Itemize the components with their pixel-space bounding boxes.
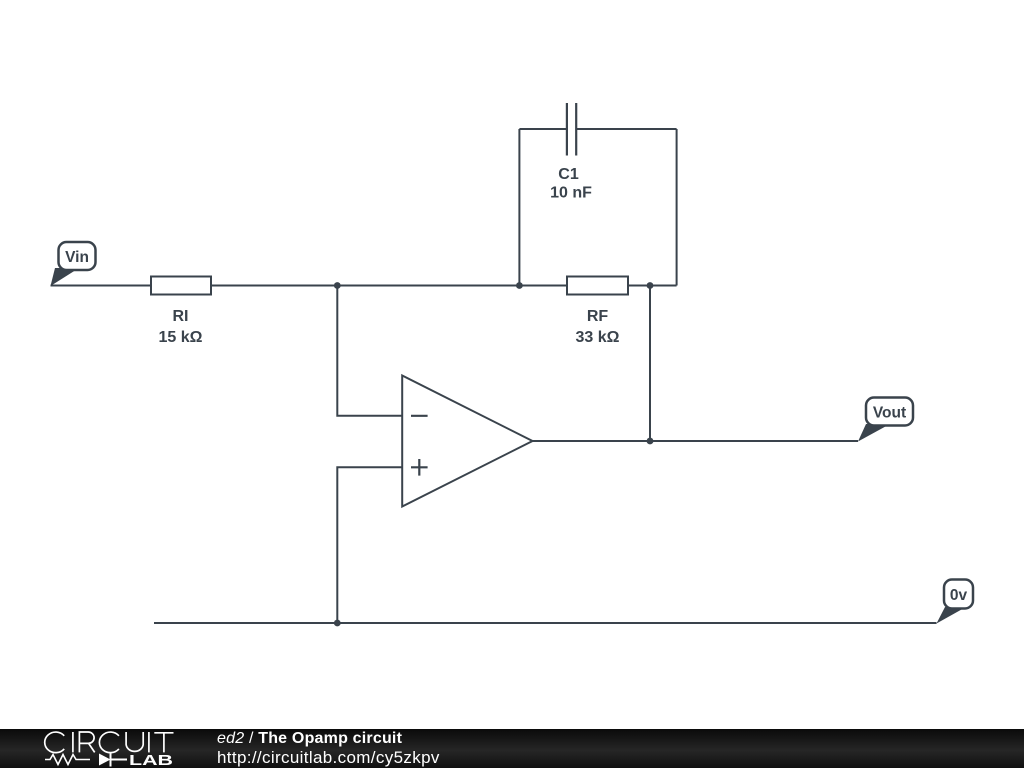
flag Vin (51, 242, 96, 286)
wire RF to right vertical (628, 285, 677, 287)
logo letter C (45, 732, 64, 753)
wire C1 loop right vertical (676, 129, 678, 286)
logo resistor zigzag (45, 755, 90, 765)
url text (217, 748, 440, 768)
resistor RF (567, 277, 628, 295)
wire C1 loop top left (519, 128, 567, 130)
node junction at ground rail (334, 620, 341, 627)
node junction at C1 loop left (516, 282, 523, 289)
node junction at RI/feedback (334, 282, 341, 289)
logo letter I (148, 732, 150, 752)
flag Vout (858, 398, 913, 442)
CircuitLab logo (0, 729, 220, 768)
svg-text:0v: 0v (950, 587, 968, 604)
wire RI to RF (211, 285, 567, 287)
op-amp U1 (402, 376, 532, 507)
svg-text:10 nF: 10 nF (550, 185, 592, 202)
title text (217, 730, 402, 748)
logo letter I (72, 732, 74, 752)
node junction at RF right (647, 282, 654, 289)
logo letter C (99, 732, 118, 753)
svg-text:15 kΩ: 15 kΩ (159, 329, 203, 346)
wire ground rail (154, 622, 937, 624)
svg-text:Vin: Vin (65, 249, 89, 266)
wire C1 loop top right (576, 128, 676, 130)
svg-text:33 kΩ: 33 kΩ (576, 329, 620, 346)
op-amp minus sign (411, 415, 428, 417)
wire Vin to RI (51, 285, 152, 287)
svg-text:Vout: Vout (873, 405, 906, 422)
svg-text:RI: RI (173, 308, 189, 325)
logo letter T (154, 733, 173, 753)
resistor RI (151, 277, 211, 295)
node junction at output (647, 438, 654, 445)
logo letter R (79, 732, 94, 752)
wire feedback drop to output (649, 286, 651, 442)
svg-text:C1: C1 (558, 166, 579, 183)
op-amp plus sign (411, 459, 428, 476)
capacitor C1 (567, 103, 576, 156)
svg-text:LAB: LAB (129, 753, 173, 768)
logo diode (99, 754, 111, 766)
wire inverting input branch (337, 286, 402, 416)
wire C1 loop left vertical (518, 129, 520, 286)
wire output to Vout (533, 440, 859, 442)
flag 0v (937, 580, 974, 624)
wire non-inverting input branch (337, 467, 402, 623)
logo letter U (126, 732, 143, 751)
svg-text:RF: RF (587, 308, 609, 325)
